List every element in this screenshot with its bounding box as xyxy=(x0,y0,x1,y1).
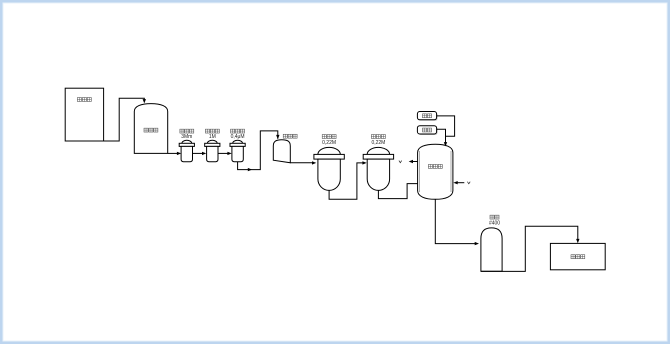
wire 无菌罐 -> 滤罐#400 xyxy=(435,199,479,245)
tank 滤罐 #400 xyxy=(481,215,502,271)
wire 过滤器3Mm -> 过滤器1M xyxy=(193,152,207,155)
filter 过滤器 3Mm xyxy=(179,129,194,162)
wire 废水罐 -> 汇集罐 xyxy=(104,98,146,141)
svg-text:3Mm: 3Mm xyxy=(181,134,192,140)
tank 汇集罐 (collection tank) xyxy=(134,104,167,154)
wire 过滤器0,22M(1) -> 过滤器0,22M(2) xyxy=(329,161,367,199)
svg-text:1M: 1M xyxy=(209,134,216,140)
wire 过滤器0,4μM -> 采集罐 xyxy=(238,131,280,171)
wire 过滤器1M -> 过滤器0,4μM xyxy=(218,152,232,155)
svg-text:0,22M: 0,22M xyxy=(322,140,336,146)
filter 过滤器 0,4μM xyxy=(230,129,245,162)
wire 蒸汽 -> 无菌罐 xyxy=(437,116,455,136)
wire 汇集罐 -> 过滤器3Mm xyxy=(168,152,182,155)
wire 过滤器0,22M(2) -> 无菌罐 xyxy=(378,184,417,199)
box 空气 (air) xyxy=(417,126,437,135)
tank 无菌罐 (sterile tank) xyxy=(418,144,453,199)
filter 过滤器 0,22M (second) xyxy=(363,135,393,191)
wire 采集罐 -> 过滤器0,22M(1) xyxy=(290,161,316,164)
box 蒸汽 (steam) xyxy=(417,112,437,121)
svg-text:#400: #400 xyxy=(489,221,500,227)
wire 滤罐#400 -> 灌装机 xyxy=(481,226,580,271)
wire vent right of 无菌罐 xyxy=(453,181,470,184)
wire 空气 -> 无菌罐 xyxy=(437,129,448,146)
tank 采集罐 (catch tank) xyxy=(273,134,297,163)
filter 过滤器 0,22M (first) xyxy=(314,135,344,191)
svg-text:0,22M: 0,22M xyxy=(371,140,385,146)
tank 废水罐 (feed water tank) xyxy=(65,88,103,141)
machine 灌装机 (filling machine) xyxy=(550,243,605,269)
wire vent left of 无菌罐 xyxy=(399,160,418,163)
filter 过滤器 1M xyxy=(205,129,220,162)
svg-text:0,4μM: 0,4μM xyxy=(231,134,245,140)
